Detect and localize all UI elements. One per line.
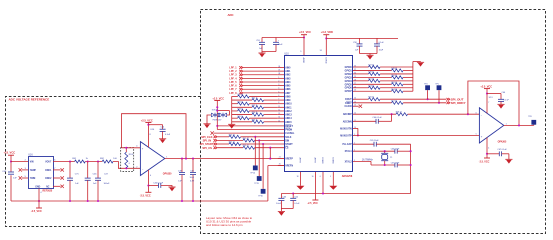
svg-text:CLKSEL: CLKSEL — [285, 133, 295, 135]
pin CLKIO no-connect — [353, 105, 359, 107]
svg-text:AIN6: AIN6 — [285, 88, 291, 91]
capacitor C63 — [280, 194, 282, 199]
svg-text:OPA350: OPA350 — [163, 172, 172, 175]
capacitor C54 — [275, 38, 277, 43]
pin stub AIN1 — [278, 70, 284, 72]
capacitor C45 — [8, 171, 14, 173]
wire TP5 — [438, 90, 440, 103]
wire cap bottoms join — [281, 208, 293, 210]
ground GPIO bus — [417, 61, 424, 63]
svg-text:38: 38 — [278, 73, 280, 75]
svg-text:R35 1k: R35 1k — [237, 116, 243, 118]
svg-text:LPF_7: LPF_7 — [229, 88, 237, 91]
svg-text:AIN7: AIN7 — [285, 92, 291, 95]
svg-text:-2.5_VCC: -2.5_VCC — [307, 202, 318, 205]
node CS tap — [269, 147, 271, 149]
svg-text:6: 6 — [278, 95, 279, 97]
wire LPF_4 to AIN3 — [243, 77, 278, 79]
svg-text:AIN14: AIN14 — [285, 117, 292, 120]
svg-text:PWDN: PWDN — [285, 129, 292, 131]
svg-text:TP6: TP6 — [528, 116, 531, 118]
svg-text:ADS1258: ADS1258 — [342, 175, 353, 178]
svg-text:18: 18 — [297, 176, 299, 178]
pin 5 DGND stub — [332, 172, 334, 186]
node bus xtal1 — [410, 150, 412, 152]
pin DNC2 no-connect — [53, 177, 61, 179]
svg-text:4: 4 — [278, 88, 279, 90]
svg-text:CLKIO: CLKIO — [345, 106, 352, 108]
node DVDD branch — [325, 37, 327, 39]
svg-text:-2.5_VCC: -2.5_VCC — [31, 210, 42, 213]
wire pullup to PWDN — [216, 101, 218, 130]
svg-text:-2.5_VCC: -2.5_VCC — [479, 160, 490, 163]
capacitor C67 supply — [498, 151, 500, 156]
svg-text:0.1uF: 0.1uF — [294, 203, 300, 205]
ground C34 — [159, 138, 166, 140]
wire C64 up to ADCINP — [378, 120, 391, 122]
node R102 bottom — [125, 167, 127, 169]
wire MUXOUTP to op-amp In+ — [353, 134, 479, 136]
svg-text:6: 6 — [476, 112, 477, 114]
resistor R52 — [353, 83, 392, 85]
svg-text:ADC: ADC — [228, 13, 234, 17]
svg-text:15: 15 — [278, 120, 280, 122]
svg-text:100uF: 100uF — [104, 183, 111, 185]
svg-text:GND: GND — [35, 186, 40, 188]
resistor R34 — [232, 114, 252, 116]
svg-text:AIN9: AIN9 — [285, 99, 291, 102]
svg-text:14: 14 — [278, 117, 280, 119]
pin 7 DNC1 no-connect — [53, 169, 61, 171]
node output junction — [518, 124, 520, 126]
resistor R50 — [353, 76, 392, 78]
wire V+ supply U16 — [147, 123, 149, 148]
resistor R49 — [353, 73, 369, 75]
resistor R42 — [217, 143, 229, 145]
svg-text:R58 47: R58 47 — [396, 112, 402, 114]
svg-text:36: 36 — [278, 66, 280, 68]
resistor R41 — [217, 139, 243, 141]
svg-text:R49 47: R49 47 — [368, 72, 374, 74]
capacitor C66 xtal — [394, 149, 396, 154]
svg-text:0.1uF: 0.1uF — [165, 134, 171, 136]
svg-text:TP16: TP16 — [258, 196, 263, 198]
node XTAL2 crystal tap — [384, 164, 386, 166]
svg-text:6: 6 — [320, 176, 321, 178]
net label SPI_DRDY — [446, 102, 449, 105]
node V- branch U13 — [486, 153, 488, 155]
wire V+ to C66cap — [487, 93, 501, 95]
power flag -2.5_VCC under U16 — [36, 207, 42, 209]
capacitor C46 — [87, 162, 89, 179]
power flag -2.5_VCC U13 — [484, 157, 490, 159]
wire DRDY to SPI_DRDY — [403, 102, 446, 104]
svg-text:R36 1k: R36 1k — [252, 119, 258, 121]
wire CLKSEL row — [214, 132, 284, 134]
svg-text:+2.5_VCC: +2.5_VCC — [299, 30, 311, 34]
svg-text:10uF: 10uF — [278, 44, 283, 46]
capacitor C65 — [373, 142, 375, 147]
svg-text:11: 11 — [278, 106, 280, 108]
resistor R40 — [217, 136, 229, 138]
svg-text:C67 0.1uF: C67 0.1uF — [497, 149, 507, 151]
svg-text:RESET: RESET — [285, 126, 293, 128]
op-amp U13 OPA365 — [479, 108, 503, 143]
svg-text:2: 2 — [278, 80, 279, 82]
pin stub AIN7 — [278, 92, 284, 94]
wire VREF output to VREFP — [165, 158, 284, 160]
svg-text:C67 4.7pF: C67 4.7pF — [391, 162, 400, 164]
wire feedback loop U13 — [468, 81, 519, 125]
svg-text:37: 37 — [278, 70, 280, 72]
wire DVDD caps to ground — [360, 53, 378, 55]
svg-text:GPIO6: GPIO6 — [345, 88, 353, 90]
svg-text:10: 10 — [312, 176, 314, 178]
pin stub AIN6 — [278, 88, 284, 90]
resistor R58 — [353, 113, 396, 115]
pin stub AIN9 — [278, 99, 284, 101]
ferrite bead FB2 — [102, 160, 113, 163]
wire VREFN drop to rail — [267, 166, 269, 202]
svg-text:5: 5 — [330, 176, 331, 178]
svg-text:GPIO7: GPIO7 — [345, 91, 353, 93]
svg-text:CS: CS — [285, 148, 289, 150]
wire diode left — [207, 115, 211, 124]
wire C67 to bus — [397, 164, 410, 166]
ADC main section box (dashed) — [201, 10, 546, 234]
node C48 tap — [181, 158, 183, 160]
svg-text:R31 1k: R31 1k — [237, 101, 243, 103]
svg-text:VREFN: VREFN — [285, 165, 293, 167]
svg-text:TP4: TP4 — [424, 83, 427, 85]
capacitor C49 — [192, 159, 194, 173]
svg-text:R50 47: R50 47 — [391, 75, 397, 77]
svg-text:GPIO0: GPIO0 — [345, 67, 353, 69]
svg-text:U10: U10 — [284, 53, 289, 55]
svg-text:7: 7 — [278, 99, 279, 101]
svg-text:AIN0: AIN0 — [285, 66, 291, 69]
wire PLLCAP to C65 — [353, 143, 374, 145]
pin 18 AVSS stub — [299, 172, 301, 186]
svg-text:0.1uF: 0.1uF — [379, 42, 385, 44]
svg-text:AVDD: AVDD — [302, 58, 305, 64]
pin stub AIN8 — [278, 95, 284, 97]
svg-text:R53 47: R53 47 — [368, 85, 374, 87]
pin stub AIN15 — [278, 121, 284, 123]
node In+ junction — [125, 147, 127, 149]
capacitor C62 — [292, 194, 294, 199]
node pullup top — [216, 106, 218, 108]
node C64 join — [391, 113, 393, 115]
wire cap bus to ground — [262, 52, 276, 54]
node MUXOUT join — [357, 134, 359, 136]
svg-text:SPI_DRDY: SPI_DRDY — [451, 101, 466, 105]
wire AVDD supply — [303, 35, 305, 56]
wire LPF_6 to AIN5 — [243, 85, 278, 87]
svg-text:1: 1 — [278, 77, 279, 79]
svg-text:DNC1: DNC1 — [45, 170, 52, 172]
svg-text:+2.5_VCC: +2.5_VCC — [480, 85, 492, 88]
capacitor C58 — [359, 38, 361, 44]
svg-text:PLLCAP: PLLCAP — [342, 143, 352, 146]
svg-text:AIN12: AIN12 — [285, 110, 292, 113]
wire V- to C67cap — [487, 153, 499, 155]
resistor R56 — [353, 98, 369, 100]
node C49 tap — [192, 158, 194, 160]
svg-text:R57 47: R57 47 — [391, 100, 397, 102]
capacitor C47 — [97, 162, 99, 179]
svg-text:MUXOUTP: MUXOUTP — [340, 135, 352, 137]
svg-text:DGND: DGND — [332, 158, 334, 165]
node VREFP junction — [269, 158, 271, 160]
node C47 tap — [97, 160, 99, 162]
wire PWDN row — [217, 129, 284, 131]
ground DVDD caps — [366, 54, 373, 56]
capacitor C48 — [181, 159, 183, 173]
svg-text:C65 10nF: C65 10nF — [370, 140, 380, 142]
node DGND rail join — [322, 192, 324, 194]
svg-text:TP5: TP5 — [435, 83, 438, 85]
wire ADCINP to op-amp — [408, 113, 480, 115]
svg-text:R33 1k: R33 1k — [237, 109, 243, 111]
svg-text:4: 4 — [488, 147, 489, 149]
wire C40 to ground — [161, 186, 172, 188]
power flag -2.5_VCC op-amp U16 — [145, 191, 151, 193]
node TP4 tap — [427, 98, 429, 100]
node V+ branch — [147, 124, 149, 126]
resistor R30 — [232, 99, 252, 101]
op-amp U16 OPA350 — [140, 142, 164, 176]
svg-text:GPIO5: GPIO5 — [345, 84, 353, 86]
wire LPF_7 to AIN6 — [243, 88, 278, 90]
svg-text:ADCINP: ADCINP — [343, 113, 352, 116]
svg-text:DOUT: DOUT — [345, 99, 352, 101]
svg-text:SCLK: SCLK — [285, 137, 292, 139]
net label SPI_OUT — [446, 98, 449, 101]
test point TP4 — [425, 85, 430, 90]
wire C45 to -2.5 rail — [10, 175, 12, 201]
ground C66 — [497, 103, 504, 105]
test point TP14 — [253, 166, 258, 171]
svg-text:LPF_3: LPF_3 — [229, 74, 237, 77]
crystal Y1 — [384, 151, 386, 153]
node XTAL1 crystal tap — [384, 150, 386, 152]
svg-text:7: 7 — [488, 102, 489, 104]
capacitor C66 supply — [500, 94, 502, 100]
pin NC no-connect — [53, 185, 61, 187]
svg-text:R51 47: R51 47 — [368, 78, 374, 80]
svg-text:LPF_8: LPF_8 — [229, 92, 237, 95]
node bus xtal2 — [410, 164, 412, 166]
node SCLK tap — [254, 136, 256, 138]
svg-text:GPIO1: GPIO1 — [345, 70, 353, 72]
svg-text:VOUT: VOUT — [45, 162, 52, 164]
pin stub AIN3 — [278, 77, 284, 79]
svg-text:R42 47: R42 47 — [229, 142, 235, 144]
svg-text:R32 1k: R32 1k — [252, 105, 258, 107]
wire CS drop — [269, 148, 271, 159]
resistor R36 — [232, 121, 252, 123]
svg-text:R41 47: R41 47 — [243, 138, 249, 140]
wire LPF_3 to AIN2 — [243, 74, 278, 76]
wire DVDD to C58 C59 — [326, 37, 398, 39]
node rail junction — [192, 200, 194, 202]
svg-text:R34 1k: R34 1k — [252, 112, 258, 114]
pin stub AIN4 — [278, 81, 284, 83]
pin stub AIN5 — [278, 85, 284, 87]
wire VREFN — [268, 165, 284, 167]
wire V- supply U16 — [147, 170, 149, 192]
svg-text:R56 47: R56 47 — [368, 97, 374, 99]
resistor R35 — [232, 117, 238, 119]
svg-text:TP14: TP14 — [250, 172, 255, 174]
svg-text:VIN: VIN — [30, 162, 34, 164]
svg-text:DIN: DIN — [285, 140, 289, 142]
svg-text:6.3V: 6.3V — [190, 180, 195, 182]
resistor R54 — [353, 90, 392, 92]
power flag -2.5_VCC bottom — [312, 199, 318, 201]
IC U10 ADS1258 body — [285, 56, 353, 172]
svg-text:R47 47: R47 47 — [368, 65, 374, 67]
wire +15_VCC to VIN and C45 — [10, 155, 12, 172]
svg-text:SPI_IN: SPI_IN — [203, 139, 212, 143]
svg-text:R29 1k: R29 1k — [237, 94, 243, 96]
wire GPIO ground bus — [412, 62, 414, 92]
wire XTAL1 row — [353, 150, 395, 152]
node pullup reset — [216, 125, 218, 127]
ground C40 — [168, 186, 175, 188]
wire V- to C40 — [148, 185, 158, 187]
wire TP4 — [427, 90, 429, 99]
svg-text:C66 4.7pF: C66 4.7pF — [391, 149, 400, 151]
wire TP6 stub — [533, 121, 535, 126]
svg-text:8: 8 — [278, 102, 279, 104]
node C62 tap — [292, 192, 294, 194]
resistor R57 — [353, 102, 392, 104]
svg-text:R48 47: R48 47 — [391, 68, 397, 70]
node TP5 tap — [438, 102, 440, 104]
test point TP16 — [261, 189, 266, 194]
pin 5 TRIM no-connect — [22, 177, 28, 179]
node rail junction — [69, 200, 71, 202]
svg-text:LPF_4: LPF_4 — [229, 77, 237, 80]
wire SCLK to TP14 — [254, 137, 256, 166]
svg-text:0: 0 — [129, 163, 130, 165]
svg-text:TEMP: TEMP — [30, 170, 37, 172]
wire RESET row — [217, 125, 284, 127]
svg-text:10uF: 10uF — [190, 177, 195, 179]
svg-text:12: 12 — [278, 109, 280, 111]
svg-text:LPF_6: LPF_6 — [229, 85, 237, 88]
capacitor C34 — [162, 125, 164, 130]
svg-text:AIN2: AIN2 — [285, 74, 291, 77]
resistor R32 — [232, 106, 252, 108]
svg-text:R54 47: R54 47 — [391, 89, 397, 91]
wire output U13 — [504, 124, 534, 126]
svg-text:13: 13 — [278, 113, 280, 115]
svg-text:+2.5_VCC: +2.5_VCC — [212, 97, 224, 100]
svg-text:AIN10: AIN10 — [285, 103, 292, 106]
wire -2.5 rail — [11, 200, 268, 202]
svg-text:+3.3_VDD: +3.3_VDD — [321, 30, 333, 34]
node DIN tap — [258, 139, 260, 141]
ground AVDD caps — [258, 52, 265, 54]
svg-text:VREFP: VREFP — [285, 159, 293, 161]
svg-text:SPI_CS: SPI_CS — [202, 146, 212, 150]
power arrow AVSS a — [296, 186, 304, 190]
svg-text:R52 47: R52 47 — [391, 82, 397, 84]
resistor R29 — [232, 95, 238, 97]
node rail junction — [87, 200, 89, 202]
pin 4 GND wire — [38, 189, 40, 209]
wire C65 to bus — [376, 143, 410, 145]
pin stub AIN2 — [278, 74, 284, 76]
wire diode loop top — [217, 110, 229, 112]
svg-text:5: 5 — [278, 91, 279, 93]
node AVDD branch — [303, 36, 305, 38]
node feedback join — [467, 113, 469, 115]
svg-text:GPIO4: GPIO4 — [345, 80, 353, 83]
wire DIN to TP15 — [258, 140, 260, 176]
pin stub AIN13 — [278, 114, 284, 116]
resistor R53 — [353, 87, 369, 89]
svg-text:DRDY: DRDY — [345, 103, 352, 105]
svg-text:TP15: TP15 — [254, 183, 259, 185]
svg-text:1.0uF: 1.0uF — [276, 203, 282, 205]
resistor R31 — [232, 103, 238, 105]
ground C67 — [505, 158, 512, 160]
wire V+ supply U13 — [486, 89, 488, 114]
svg-text:U16: U16 — [28, 154, 33, 156]
pin stub VREFN — [278, 165, 284, 167]
svg-text:SOT23: SOT23 — [212, 109, 218, 111]
wire FB1 to FB2 — [85, 161, 102, 163]
wire MUXOUTN join — [353, 127, 358, 129]
pin 6 DGND stub — [322, 172, 324, 194]
wire DOUT to SPI_OUT — [380, 98, 446, 100]
svg-text:XTAL1: XTAL1 — [345, 150, 353, 153]
wire C66 to bus — [397, 150, 410, 152]
svg-text:SPI_CLK: SPI_CLK — [201, 135, 212, 139]
wire START to TP16 — [262, 144, 264, 189]
DNI box (dashed) — [121, 148, 134, 172]
resistor R33 — [232, 110, 238, 112]
node V- branch — [147, 184, 149, 186]
pin stub AIN12 — [278, 110, 284, 112]
node feedback tap — [185, 158, 187, 160]
pin stub AIN0 — [278, 67, 284, 69]
svg-text:MUXOUTN: MUXOUTN — [340, 128, 352, 130]
svg-text:GPIO3: GPIO3 — [345, 77, 353, 79]
svg-text:LPF_2: LPF_2 — [229, 70, 237, 73]
node rail junction — [181, 200, 183, 202]
node GND rail — [38, 200, 40, 202]
svg-text:XTAL2: XTAL2 — [345, 160, 353, 163]
ground C63 C62 — [278, 210, 285, 212]
svg-text:P6KE 6.3V: P6KE 6.3V — [213, 119, 223, 121]
svg-text:and follow same to 14.6 pin: and follow same to 14.6 pin — [206, 223, 243, 227]
svg-text:AIN4: AIN4 — [285, 81, 291, 84]
wire V+ to C34 — [148, 124, 162, 126]
test point TP15 — [257, 176, 262, 181]
svg-text:AIN8: AIN8 — [285, 95, 291, 98]
capacitor C75 — [69, 162, 71, 179]
pin stub VREFP — [278, 158, 284, 160]
svg-text:START: START — [285, 143, 293, 146]
svg-text:TRIM: TRIM — [30, 178, 36, 180]
svg-text:AIN1: AIN1 — [285, 70, 291, 73]
svg-text:ADC VOLTAGE REFERENCE: ADC VOLTAGE REFERENCE — [9, 97, 50, 101]
